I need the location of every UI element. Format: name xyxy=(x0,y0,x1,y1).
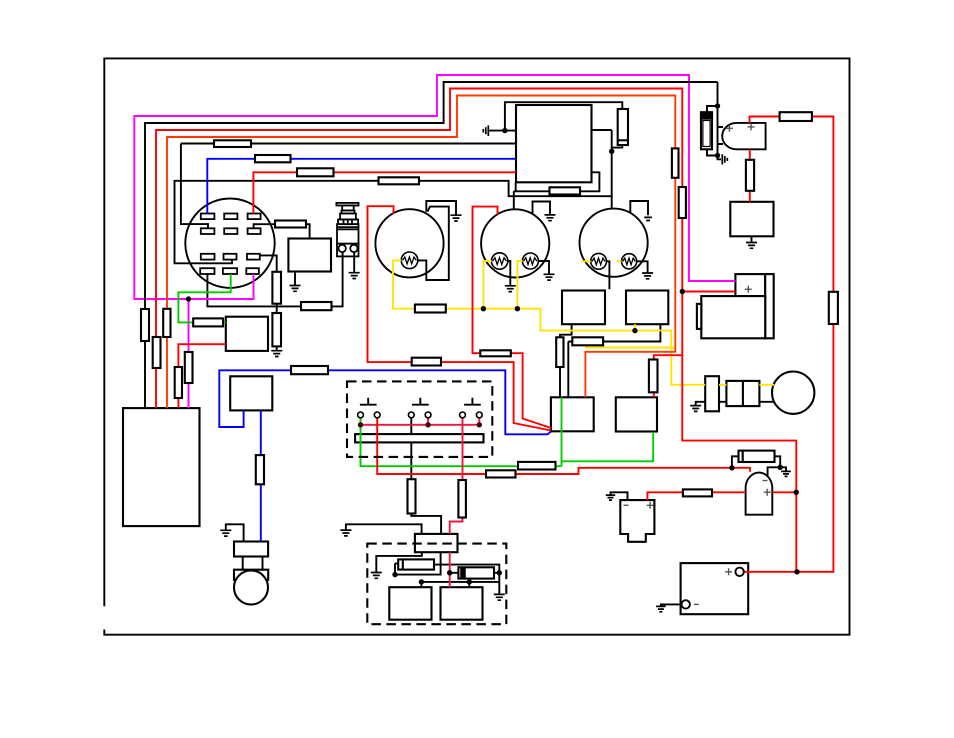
resistor on blue horn drop xyxy=(256,455,264,484)
condenser 2 xyxy=(458,567,494,578)
ground control box sideways xyxy=(483,125,488,136)
filament zigzags xyxy=(403,257,417,264)
wire yellow stub parallel xyxy=(585,347,676,349)
wire red dynamo charge lead xyxy=(750,117,834,572)
relay box D xyxy=(616,397,657,431)
ground battery xyxy=(656,606,666,611)
resistor on crimson coil drop xyxy=(458,480,466,518)
resistor on red tach line xyxy=(412,358,441,366)
wire red accessory feed xyxy=(377,418,750,475)
starter motor body xyxy=(701,296,765,338)
starter motor end cap xyxy=(697,304,701,329)
resistor on black y180 xyxy=(379,177,420,184)
ground horn push xyxy=(349,273,360,279)
wire red ignition feed xyxy=(253,172,516,213)
lamp bulbs speedometer xyxy=(491,253,507,269)
resistor control box lower xyxy=(550,187,581,194)
wire yellow gauge lamp stubs xyxy=(582,260,622,262)
wire fuel pump ground lead xyxy=(611,492,628,500)
wire yellow speedometer lamp left xyxy=(483,261,491,309)
starter motor tall rect xyxy=(765,274,774,338)
battery terminals xyxy=(682,568,744,609)
lamp unit two-cell box xyxy=(726,381,759,406)
ground gauge bracket xyxy=(644,217,652,220)
resistor on red ignition xyxy=(297,168,334,176)
resistor on fuel pump feed xyxy=(683,489,712,496)
wire red branch to relay D xyxy=(654,355,683,397)
switch panel bar xyxy=(355,434,483,442)
gauge feed box A xyxy=(562,291,605,325)
ground fuel pump xyxy=(606,495,615,500)
wire black control box feed xyxy=(181,144,516,229)
wire red speedometer drop xyxy=(473,207,552,428)
ground fuse bus sideways xyxy=(722,154,727,164)
resistor box B link xyxy=(572,337,603,345)
resistor on black feed xyxy=(214,140,251,147)
ignition/lighting switch circle xyxy=(185,199,274,288)
resistor on red drop left xyxy=(153,337,161,368)
wire tachometer lamp loop xyxy=(417,207,448,280)
wire magenta main harness xyxy=(134,75,735,299)
resistor on red speedo line xyxy=(480,350,511,356)
wire red main battery lead xyxy=(156,89,796,572)
ground lamp unit xyxy=(690,406,701,412)
ground distributor xyxy=(371,573,382,579)
ignition coil xyxy=(415,534,458,552)
junction dots crimson bus xyxy=(358,422,482,427)
fuse above dome xyxy=(739,451,775,462)
wire panel to coil black xyxy=(411,418,441,534)
wire horn switch line xyxy=(207,252,342,306)
dashed switch panel box xyxy=(347,381,506,624)
resistor relay D vertical xyxy=(649,360,658,393)
relay box C xyxy=(551,397,594,431)
wire blue harness xyxy=(207,159,516,214)
wire condenser link xyxy=(434,565,499,573)
resistor flasher feed xyxy=(275,221,306,228)
ground coil lead xyxy=(340,530,351,536)
wire points bus xyxy=(421,573,499,594)
condenser 1 xyxy=(398,559,434,569)
wire points link left xyxy=(395,552,441,574)
ground condenser xyxy=(494,594,505,600)
wire green relay to distributor panel xyxy=(361,397,654,466)
ground speedo bracket xyxy=(545,215,556,221)
resistor on red fuel link drop xyxy=(175,367,182,398)
resistor on orange right xyxy=(672,148,679,177)
ground speedo lamp left xyxy=(505,286,516,292)
wire battery negative lead xyxy=(661,604,682,606)
wire speedometer bracket xyxy=(533,202,551,215)
wire fuse bus xyxy=(707,82,723,159)
flasher unit box xyxy=(288,239,331,272)
speedometer circle xyxy=(481,209,549,277)
ground flasher bars xyxy=(290,286,301,292)
wire crimson coil feed xyxy=(450,418,463,588)
resistor on crimson accessory xyxy=(486,470,516,477)
gauge feed box B xyxy=(626,291,668,325)
switch contact row 4 xyxy=(200,268,214,274)
ground horn relay bars xyxy=(746,243,757,249)
wire resistor stack xyxy=(260,255,277,350)
resistor stack upper xyxy=(272,272,281,304)
resistor stack lower xyxy=(272,313,281,346)
resistor on black drop left xyxy=(141,309,149,341)
wire control box right drop xyxy=(592,130,623,209)
wire red fuel box link xyxy=(178,344,225,408)
resistor horn switch line xyxy=(301,302,332,310)
big left box (fuse/junction box) xyxy=(123,408,200,526)
control box (voltage regulator) xyxy=(516,105,592,182)
wire box A to relay C xyxy=(560,324,660,397)
push button switch (horn push) xyxy=(336,203,358,257)
ground tach bracket xyxy=(451,215,462,221)
contact breaker box 1 xyxy=(389,587,431,620)
wire yellow speedometer lamp right xyxy=(517,261,522,309)
tachometer circle xyxy=(375,209,443,277)
resistor on orange drop left xyxy=(163,309,170,337)
resistor coil drop vertical xyxy=(746,160,754,191)
resistor on black panel drop xyxy=(408,479,416,513)
wire orange lighting feed xyxy=(167,96,675,409)
resistor on green xyxy=(193,318,223,326)
switch contact row 3 xyxy=(201,254,215,260)
wire speedometer lamp grounds xyxy=(508,261,549,285)
wire black harness top run xyxy=(145,82,718,408)
polarity labels xyxy=(624,123,771,604)
ground gauge lamp right xyxy=(642,273,653,279)
wiper motor box xyxy=(230,376,272,410)
wire horn push ground lead xyxy=(353,252,355,273)
resistor on blue lower xyxy=(291,366,328,374)
resistor on dynamo output xyxy=(780,112,812,121)
ground horn xyxy=(220,530,231,536)
wire yellow lamp bus xyxy=(393,260,705,384)
wire yellow lamp unit links xyxy=(719,384,774,386)
wire distributor ground lead xyxy=(376,552,422,572)
wire yellow box B stub xyxy=(634,324,636,330)
wire blue horn drop xyxy=(260,410,262,541)
wire blue wiper feed xyxy=(219,370,551,434)
wire lamp unit lower links xyxy=(696,402,774,406)
dashed distributor box xyxy=(367,544,506,625)
distributor dome xyxy=(746,473,773,515)
fuel/temp gauge circle xyxy=(580,209,648,277)
wire dome terminal leads xyxy=(732,456,786,476)
wire coil ground lead xyxy=(346,524,422,534)
resistor on yellow xyxy=(415,305,446,313)
wire red battery positive xyxy=(744,571,797,573)
lamp bulb tachometer xyxy=(401,252,637,269)
starter solenoid top box xyxy=(735,274,765,296)
wire gauge lamp leads xyxy=(606,261,647,289)
resistor fuse right vertical xyxy=(618,109,628,145)
wire control box output loop xyxy=(514,172,600,209)
wire red coil drop xyxy=(749,149,751,202)
contact breaker box 2 xyxy=(441,587,483,620)
wire magenta branch to fuse box xyxy=(188,299,190,408)
horn relay box right xyxy=(730,202,773,237)
fuel pump body xyxy=(620,500,654,542)
resistor box A vertical xyxy=(556,337,563,367)
resistor on blue xyxy=(255,155,291,162)
horn bell xyxy=(234,571,268,605)
horn top rect xyxy=(234,542,268,557)
battery box xyxy=(681,563,749,614)
ground horn relay lead xyxy=(751,236,753,242)
wire horn ground lead xyxy=(226,524,244,541)
switch panel terminals xyxy=(358,412,483,418)
lamp unit tall rect xyxy=(705,376,719,411)
ground dome xyxy=(781,471,791,476)
ignition warning lamp coil D-shape xyxy=(722,123,765,149)
wire black switch loop y180 xyxy=(175,181,612,263)
fuel gauge box xyxy=(226,317,268,351)
wire red tachometer drop xyxy=(368,206,552,430)
resistor on green lower xyxy=(518,462,556,470)
switch contact row 1 xyxy=(201,214,215,220)
wire crimson panel bus xyxy=(361,424,480,426)
fuse main xyxy=(701,112,712,149)
wire red branch to solenoid xyxy=(682,291,735,293)
wire horn stems xyxy=(243,557,263,571)
resistor charge lead vertical xyxy=(829,292,838,324)
ground speedo lamp right xyxy=(544,274,555,280)
wire crimson terminal stubs xyxy=(428,418,479,425)
T lever symbols in switch panel xyxy=(360,398,377,405)
wire green switch to fuel sender xyxy=(178,274,230,322)
wire tachometer bracket xyxy=(426,201,456,215)
switch contact row 2 xyxy=(201,228,215,234)
wire control box ground link xyxy=(489,102,622,130)
lamp circle xyxy=(772,372,814,414)
ground resistor stack xyxy=(271,351,282,357)
lamp bulbs fuel/temp gauge xyxy=(591,253,607,269)
wire red fuel pump feed xyxy=(647,492,796,500)
wire flasher feed xyxy=(254,224,310,238)
resistor on red right xyxy=(679,187,686,218)
wire gauge bracket xyxy=(630,201,648,215)
ground flasher xyxy=(294,272,296,286)
resistor on magenta drop xyxy=(185,352,193,383)
